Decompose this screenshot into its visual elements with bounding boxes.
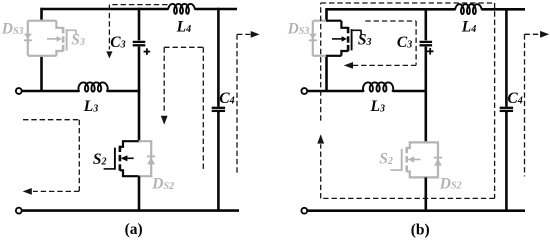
svg-text:(a): (a) [125, 221, 143, 238]
svg-text:(b): (b) [411, 221, 430, 238]
